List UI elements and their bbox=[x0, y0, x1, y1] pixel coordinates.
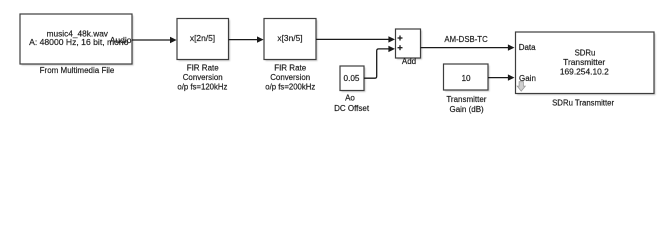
block Transmitter Gain constant 10 bbox=[444, 64, 490, 92]
value label SDRu Transmitter 169.254.10.2 bbox=[560, 49, 609, 77]
label Transmitter Gain (dB) bbox=[446, 95, 486, 114]
svg-text:o/p fs=120kHz: o/p fs=120kHz bbox=[177, 83, 227, 92]
svg-text:10: 10 bbox=[461, 74, 471, 83]
svg-text:FIR Rate: FIR Rate bbox=[187, 63, 220, 72]
svg-text:0.05: 0.05 bbox=[344, 74, 360, 83]
svg-text:x[2n/5]: x[2n/5] bbox=[190, 33, 215, 43]
svg-text:Conversion: Conversion bbox=[183, 73, 223, 82]
svg-text:Audio: Audio bbox=[110, 35, 132, 45]
plus sign input 1 bbox=[398, 36, 403, 41]
block Add bbox=[396, 29, 423, 60]
block FIR Rate Conversion 2 bbox=[264, 19, 318, 62]
wire bbox=[229, 36, 264, 42]
svg-text:Gain (dB): Gain (dB) bbox=[449, 105, 484, 114]
svg-text:Conversion: Conversion bbox=[270, 73, 310, 82]
label Ao DC Offset bbox=[334, 94, 370, 114]
svg-text:Add: Add bbox=[402, 57, 416, 66]
svg-text:169.254.10.2: 169.254.10.2 bbox=[560, 67, 609, 77]
svg-text:From Multimedia File: From Multimedia File bbox=[40, 66, 115, 75]
wire bbox=[488, 74, 515, 80]
block FIR Rate Conversion 1 bbox=[177, 19, 230, 62]
svg-text:o/p fs=200kHz: o/p fs=200kHz bbox=[265, 83, 315, 92]
svg-text:SDRu Transmitter: SDRu Transmitter bbox=[552, 98, 614, 107]
svg-text:Transmitter: Transmitter bbox=[446, 95, 486, 104]
svg-text:FIR Rate: FIR Rate bbox=[274, 63, 307, 72]
wire bbox=[132, 37, 177, 43]
svg-text:x[3n/5]: x[3n/5] bbox=[277, 33, 302, 43]
svg-text:Ao: Ao bbox=[345, 94, 355, 103]
icon gray down arrow bbox=[517, 82, 525, 91]
block SDRu Transmitter bbox=[516, 32, 656, 95]
svg-text:AM-DSB-TC: AM-DSB-TC bbox=[444, 35, 488, 44]
wire bbox=[316, 36, 395, 42]
wire bbox=[364, 46, 395, 78]
svg-text:Data: Data bbox=[519, 43, 536, 52]
block DC Offset constant 0.05 bbox=[340, 66, 366, 92]
svg-text:DC Offset: DC Offset bbox=[334, 104, 370, 113]
plus sign input 2 bbox=[398, 45, 403, 50]
wire bbox=[421, 44, 515, 50]
block From Multimedia File bbox=[20, 14, 134, 66]
label FIR Rate Conversion o/p fs=200kHz bbox=[265, 63, 315, 91]
label FIR Rate Conversion o/p fs=120kHz bbox=[177, 63, 227, 91]
